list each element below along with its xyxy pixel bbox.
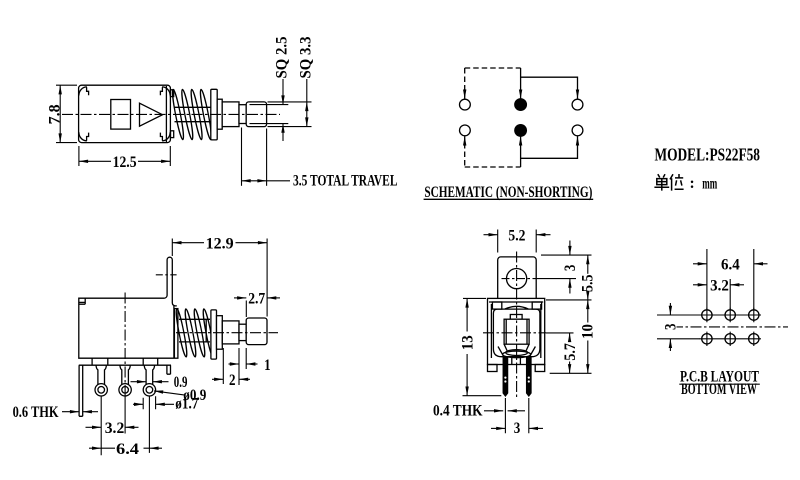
body vertical centerline (124, 293, 126, 397)
dim 2.7 arrows (234, 297, 246, 299)
SQ3.3 extension lines (268, 102, 312, 127)
dim SQ3.3 leader (306, 79, 308, 102)
wire middle bottom (520, 146, 522, 167)
pin extension lines (505, 398, 528, 433)
shaft centerline (176, 332, 278, 334)
dim SQ3.3 arrows (306, 102, 308, 127)
dim 2.7 extension line (245, 301, 247, 318)
svg-text:0.6 THK: 0.6 THK (13, 404, 59, 421)
foot right (535, 365, 545, 372)
shaft step block (217, 316, 223, 350)
wire middle top (520, 68, 522, 89)
spring coil 2 (183, 308, 197, 357)
svg-text::: : (690, 175, 695, 192)
dim 6.4 extension line (148, 397, 150, 453)
switch body (front view) (488, 298, 545, 364)
dim 7.8 extension lines (56, 85, 77, 142)
pad B1 (702, 334, 712, 344)
dashed frame left upper (464, 68, 466, 92)
svg-text:7.8: 7.8 (47, 104, 64, 124)
arrow into pin bottom-middle (520, 136, 522, 146)
pad row 2 horizontal line (700, 338, 761, 340)
clamp tab right (532, 302, 541, 309)
pad A2 (725, 310, 735, 320)
spring coil 1 (171, 89, 185, 140)
dim 12.5 line (79, 160, 170, 162)
dim 6.4 arrows (693, 263, 707, 265)
spring front ellipse 2 (503, 351, 531, 358)
bracket hole (506, 269, 526, 289)
dim 5.2 arrows (484, 234, 498, 236)
pin circle top-left (460, 99, 471, 110)
right extension lines (533, 255, 592, 373)
pin 3 funnel and stem (144, 365, 154, 384)
arrow into pin top-right (577, 89, 579, 99)
dashed frame bottom (465, 166, 521, 168)
travel extension line left (241, 128, 243, 186)
spring front ellipse 1 (506, 350, 528, 356)
svg-text:6.4: 6.4 (116, 441, 139, 458)
text 3 (pcb) (666, 321, 677, 334)
svg-text:MODEL:PS22F58: MODEL:PS22F58 (655, 144, 761, 164)
dim 3 arrows (669, 303, 671, 315)
wire bottom to right (521, 146, 578, 158)
hole crosshair (502, 278, 533, 280)
text 12.5 (111, 154, 138, 171)
dim 2 arrows (212, 378, 223, 380)
pin circle bottom-middle (common, filled) (515, 125, 527, 137)
pad B2 (725, 334, 735, 344)
svg-text:3: 3 (514, 420, 521, 437)
arrow into pin bottom-right (577, 136, 579, 146)
svg-text:3: 3 (663, 323, 680, 330)
dim 3.2 extension line (729, 279, 731, 310)
text 12.9 (204, 235, 236, 252)
dim 10 line (587, 300, 589, 323)
pin 2 funnel and stem (120, 365, 130, 384)
spring coil 4 (199, 89, 213, 140)
svg-text:SCHEMATIC (NON-SHORTING): SCHEMATIC (NON-SHORTING) (424, 184, 592, 201)
pad A1 (702, 310, 712, 320)
spring coil 1 (174, 308, 188, 357)
svg-text:3.2: 3.2 (710, 278, 729, 295)
dim 6.4 extension lines (707, 249, 754, 310)
plunger inner lines (506, 319, 527, 344)
svg-text:2.7: 2.7 (248, 291, 265, 308)
unit label 单 (654, 174, 669, 190)
push button cap (246, 102, 266, 127)
pin 1 funnel and stem (96, 365, 106, 384)
dim 0.6 THK arrows (62, 411, 79, 413)
washer plate (211, 310, 217, 359)
dim 0.4 THK arrows (484, 410, 503, 412)
pin circle top-middle (common, filled) (515, 99, 527, 111)
leader Ø0.9 (154, 391, 184, 395)
dim 7.8 line (59, 85, 61, 142)
left mounting leg (79, 365, 83, 416)
spring coil 3 (192, 308, 206, 357)
push button cap (246, 318, 267, 345)
dim 5.7 line (569, 333, 571, 342)
svg-text:1: 1 (264, 357, 271, 374)
dim 3 extension lines (657, 315, 700, 339)
dim 3.5 line with inside arrows (242, 180, 267, 182)
dim 3.2 extension lines (101, 397, 125, 456)
center gap lines (512, 358, 521, 365)
dim SQ2.5 arrow top (282, 79, 284, 105)
svg-text:6.4: 6.4 (721, 257, 740, 274)
washer plate (211, 89, 217, 140)
dim 6.4 arrows and line (89, 447, 101, 449)
clamp tab left (492, 302, 501, 309)
dim 5.2 extension lines (498, 230, 537, 253)
dashed frame top (465, 67, 521, 69)
dim 12.9 extension lines (172, 239, 267, 317)
spring coil 4 (201, 308, 215, 357)
svg-text:5.7: 5.7 (562, 343, 579, 361)
body corner tab bottom-right (160, 132, 170, 141)
housing wing lines (498, 347, 535, 358)
arrow into pin top-left (464, 89, 466, 99)
body inner side lines (491, 304, 540, 358)
pad row 1 horizontal line (700, 314, 761, 316)
svg-text:SQ 3.3: SQ 3.3 (298, 36, 315, 78)
shaft segment (222, 321, 239, 344)
spring coil 2 (180, 89, 194, 140)
dim Ø1.7 arrows (133, 403, 143, 405)
svg-text:3: 3 (562, 264, 579, 271)
body corner tab top-right (160, 87, 170, 96)
foot left (488, 365, 498, 372)
tab centerline cross (156, 274, 177, 276)
shaft neck (239, 324, 246, 340)
centerline (top view axis) (62, 113, 280, 115)
body second top line (489, 301, 543, 303)
plunger rod inside spring (179, 319, 210, 342)
svg-text:13: 13 (459, 335, 476, 350)
dim 3 (pin pitch) arrows (491, 427, 505, 429)
svg-text:SQ 2.5: SQ 2.5 (274, 36, 291, 78)
svg-text:12.5: 12.5 (113, 154, 137, 171)
plunger (504, 319, 529, 344)
pin circle top-right (572, 99, 583, 110)
svg-text:12.9: 12.9 (206, 235, 234, 252)
body bottom skirt (79, 358, 171, 365)
plunger bottom taper (504, 344, 529, 350)
svg-text:2: 2 (229, 372, 236, 389)
arrow mark (triangle) in body (140, 103, 163, 126)
body inner wall line (165, 86, 167, 142)
cap chamfer / SQ2.5 extension lines (250, 105, 289, 124)
wire top to right (521, 77, 578, 89)
body right nub top (171, 90, 174, 97)
plunger top tab (510, 315, 522, 320)
right mounting leg (167, 365, 171, 374)
pcb centerline (672, 326, 788, 328)
pin 3 eyelet (143, 384, 155, 396)
schematic title underline (424, 198, 594, 200)
arrow into pin bottom-left (464, 136, 466, 146)
dim 12.5 extension lines (79, 146, 170, 166)
plunger dome arc (505, 306, 528, 309)
mounting bracket (498, 257, 537, 299)
dim SQ2.5 arrow bottom (282, 124, 284, 141)
text 6.4 (115, 441, 140, 458)
svg-text:BOTTOM VIEW: BOTTOM VIEW (681, 381, 757, 398)
body right nub bottom (171, 131, 174, 138)
svg-text:5.5: 5.5 (580, 274, 597, 292)
dim 1 arrows (229, 363, 240, 365)
pin circle bottom-right (572, 125, 583, 136)
pin right (front view) (527, 358, 531, 396)
arrow into pin top-middle (520, 89, 522, 99)
inner housing (493, 309, 540, 357)
pin 1 eyelet (95, 384, 107, 396)
main vertical centerline (516, 252, 518, 400)
svg-text:5.2: 5.2 (508, 228, 525, 245)
travel extension line right (266, 129, 268, 186)
square hole in body (111, 100, 131, 130)
pin 2 eyelet (119, 384, 131, 396)
body corner tab bottom-left (79, 132, 89, 141)
svg-text:ø1.7: ø1.7 (175, 396, 198, 413)
dim 13 extension lines (463, 298, 502, 395)
switch body with mounting tab (79, 257, 177, 358)
svg-text:0.4 THK: 0.4 THK (433, 403, 483, 420)
shaft step block (217, 99, 222, 129)
dim 0.9 arrows (131, 381, 147, 383)
shaft neck (239, 105, 246, 124)
pad A3 (749, 310, 759, 320)
dim 3.5 tail to label (267, 180, 290, 182)
pad B3 (749, 334, 759, 344)
body horizontal centerline (483, 332, 546, 334)
dim 3.2 arrows (693, 284, 707, 286)
dim 1 extension lines (223, 348, 246, 385)
body corner tab top-left (79, 87, 89, 96)
svg-text:3.5 TOTAL TRAVEL: 3.5 TOTAL TRAVEL (293, 172, 398, 189)
unit label 位 (670, 174, 684, 191)
pcb title underline (679, 383, 760, 385)
pad vertical ticks (707, 308, 754, 346)
svg-text:10: 10 (580, 324, 597, 339)
dim 13 line (466, 298, 468, 331)
pin circle bottom-left (460, 125, 471, 136)
svg-text:mm: mm (702, 176, 717, 193)
shaft segment (222, 102, 239, 127)
dashed frame left lower (464, 143, 466, 167)
plunger rod inside spring (175, 107, 211, 121)
dim 12.9 line (172, 242, 267, 244)
spring seat plate (174, 309, 178, 359)
svg-text:3.2: 3.2 (105, 420, 125, 437)
dim 3.2 arrows (86, 426, 102, 428)
switch body (side view) (79, 85, 171, 142)
pin left (front view) (503, 358, 507, 396)
dim 5.5 line (587, 255, 589, 274)
text 5.2 (506, 228, 529, 245)
dim 3 (hole) arrows (569, 241, 571, 256)
Ø1.7 extension lines (143, 396, 155, 409)
spring coil 3 (189, 89, 203, 140)
body top-left notch (79, 298, 85, 304)
